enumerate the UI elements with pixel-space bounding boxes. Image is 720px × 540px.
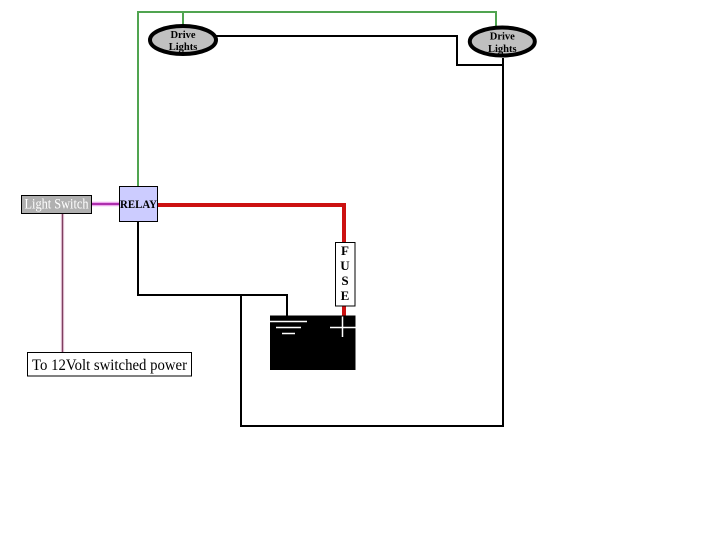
svg-text:S: S <box>341 273 348 288</box>
svg-text:Drive: Drive <box>170 30 195 41</box>
svg-text:Drive: Drive <box>490 32 515 43</box>
svg-text:F: F <box>341 243 349 258</box>
svg-text:Lights: Lights <box>488 44 517 55</box>
svg-text:RELAY: RELAY <box>120 199 158 211</box>
svg-text:Light Switch: Light Switch <box>25 197 90 213</box>
svg-text:U: U <box>340 258 350 273</box>
svg-text:To 12Volt switched power: To 12Volt switched power <box>32 357 188 374</box>
svg-text:E: E <box>341 288 350 303</box>
svg-text:Lights: Lights <box>169 42 198 53</box>
